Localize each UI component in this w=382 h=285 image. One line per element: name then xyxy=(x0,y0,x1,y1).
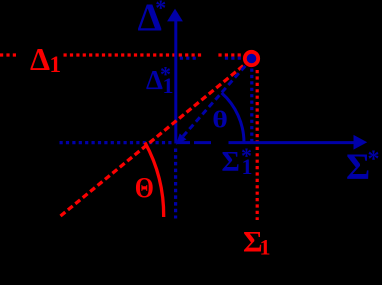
wire: blue dotted horizontal Delta1* level, run 1 xyxy=(180,57,196,60)
axis: Delta* vertical axis shaft xyxy=(174,20,177,144)
wire: red dotted horizontal line Delta1 level, right run to circle xyxy=(218,53,242,56)
arrowhead of blue dashed radius vector at origin xyxy=(176,134,187,145)
wire: red dashed diagonal line at angle Theta through the point xyxy=(61,59,253,217)
wire: blue dashed radius vector from point to origin xyxy=(183,59,252,137)
label: theta blue xyxy=(212,106,228,133)
svg-text:Δ: Δ xyxy=(30,41,50,77)
svg-text:θ: θ xyxy=(212,106,228,133)
svg-text:1: 1 xyxy=(242,154,253,179)
wire: red dotted horizontal line Delta1 level, left run xyxy=(0,53,18,56)
wire: red dotted horizontal line Delta1 level, middle run xyxy=(64,53,203,56)
arc: blue theta angle arc xyxy=(222,93,244,143)
axis: Sigma* horizontal axis arrowhead xyxy=(354,135,368,150)
svg-text:*: * xyxy=(155,0,166,20)
wire: blue dotted vertical Sigma1* drop line from circle to axis xyxy=(250,69,253,142)
svg-text:1: 1 xyxy=(260,235,271,260)
svg-text:Θ: Θ xyxy=(135,172,154,203)
svg-text:1: 1 xyxy=(163,73,174,98)
svg-text:1: 1 xyxy=(50,52,62,77)
axis: Sigma* horizontal axis solid shaft xyxy=(229,141,356,144)
svg-text:*: * xyxy=(368,147,380,173)
arc: red Theta angle arc xyxy=(145,143,164,218)
wire: red dotted vertical Sigma1 line from circle through axis down xyxy=(256,70,259,220)
svg-text:Σ: Σ xyxy=(222,147,240,178)
wire: blue dotted horizontal Delta1* level, run 2 xyxy=(225,57,241,60)
node: blue core of the point xyxy=(247,54,257,64)
node: red ring of the point xyxy=(245,52,258,65)
wire: blue dotted vertical below origin (negative Delta* axis) xyxy=(174,149,177,219)
label: Theta red xyxy=(135,172,154,203)
axis: Sigma* horizontal axis dashes near origin xyxy=(177,141,211,144)
axis: Delta* vertical axis arrowhead xyxy=(167,9,183,22)
wire: blue dotted horizontal negative Sigma* axis (left of origin) xyxy=(60,141,173,144)
